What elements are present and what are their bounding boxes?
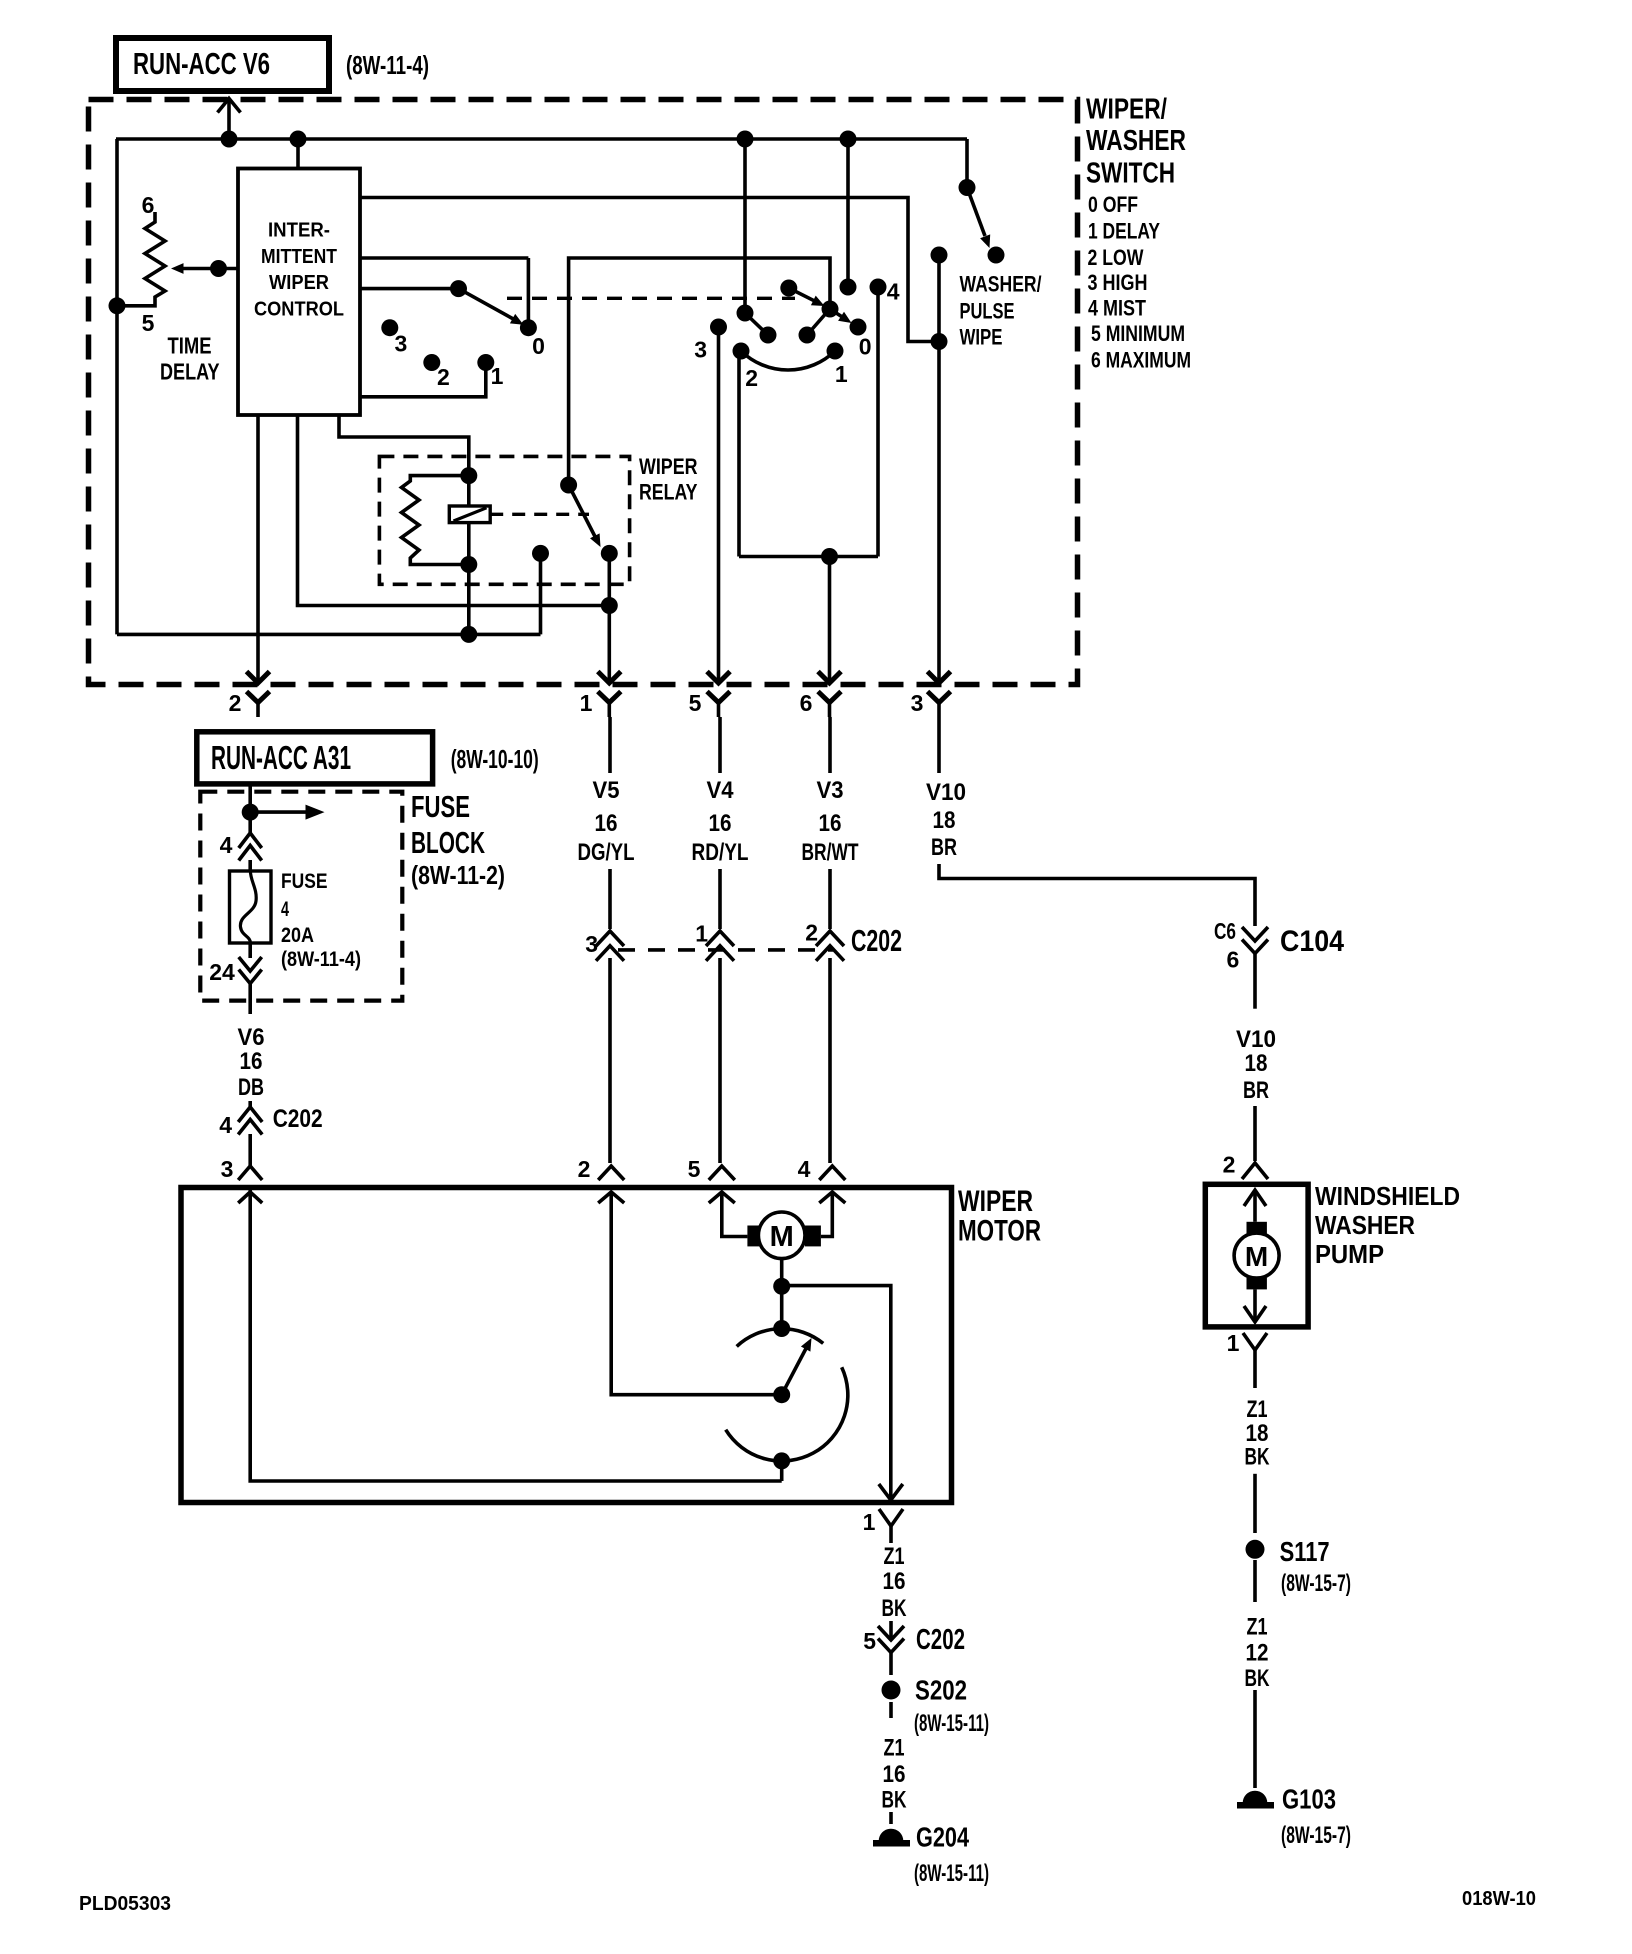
- connector C202 pin 5: [863, 1624, 965, 1656]
- svg-text:2: 2: [229, 690, 242, 716]
- svg-text:PULSE: PULSE: [960, 299, 1015, 324]
- svg-text:2: 2: [578, 1156, 591, 1182]
- wire bus to rotary contact left: [737, 131, 754, 314]
- svg-text:6: 6: [1227, 947, 1240, 973]
- svg-text:16: 16: [709, 810, 732, 837]
- windshield washer pump box: [1205, 1184, 1308, 1327]
- svg-text:BK: BK: [1245, 1444, 1270, 1471]
- svg-text:2 LOW: 2 LOW: [1088, 245, 1144, 270]
- motor pin 1 arrow inside: [879, 1484, 903, 1500]
- contact washer pulse: [988, 247, 1005, 264]
- fuse block dashed box: [200, 792, 402, 1001]
- svg-text:5 MINIMUM: 5 MINIMUM: [1091, 321, 1185, 346]
- svg-text:BR: BR: [1243, 1077, 1269, 1104]
- svg-text:2: 2: [437, 364, 450, 390]
- label TIME DELAY: [160, 333, 220, 385]
- svg-text:RD/YL: RD/YL: [692, 839, 749, 866]
- contact 0 rotary: [850, 319, 872, 360]
- connector pin 2: [229, 672, 270, 718]
- svg-text:1: 1: [835, 361, 848, 387]
- wire S202 stub: [889, 1702, 893, 1718]
- wire V3 to C202: [828, 869, 832, 929]
- svg-text:S117: S117: [1280, 1536, 1330, 1567]
- svg-text:V5: V5: [593, 777, 620, 804]
- connector pin 3: [911, 672, 951, 718]
- svg-text:C202: C202: [851, 923, 902, 958]
- connector C104: [1214, 918, 1344, 973]
- contact washer feed: [959, 179, 976, 196]
- wire control to relay coil: [339, 415, 469, 476]
- pump connector 1: [1227, 1330, 1267, 1362]
- node coil top: [460, 467, 477, 484]
- svg-text:3 HIGH: 3 HIGH: [1088, 270, 1148, 295]
- contact 3 rotary: [694, 319, 727, 363]
- contact 3 delay switch: [381, 319, 407, 356]
- wire G204 stub: [889, 1812, 893, 1824]
- wire C104 to pump: [1253, 954, 1257, 1009]
- svg-text:4: 4: [887, 279, 900, 305]
- svg-text:WIPER: WIPER: [639, 454, 698, 479]
- wire pump to label: [1253, 1362, 1257, 1388]
- svg-text:WIPER: WIPER: [269, 271, 329, 294]
- wire C202-4 to pin 3: [248, 1134, 252, 1166]
- svg-text:(8W-15-7): (8W-15-7): [1281, 1570, 1351, 1597]
- junction block label RUN-ACC V6: [116, 38, 329, 91]
- wiper/washer switch dashed enclosure: [89, 100, 1078, 685]
- wire bus to rotary contact right: [840, 131, 857, 288]
- wire V4 upper: [718, 717, 722, 773]
- svg-text:1: 1: [1227, 1330, 1240, 1356]
- contact 4 rotary: [870, 279, 900, 305]
- wiper motor box: [181, 1188, 952, 1503]
- wire contact 2 down: [737, 351, 741, 557]
- svg-text:1: 1: [863, 1509, 876, 1535]
- svg-text:WASHER: WASHER: [1315, 1210, 1415, 1240]
- svg-text:SWITCH: SWITCH: [1086, 158, 1175, 190]
- svg-text:WASHER/: WASHER/: [960, 272, 1042, 297]
- svg-text:(8W-11-2): (8W-11-2): [411, 860, 505, 890]
- wire motor output to pin 1: [782, 1286, 891, 1500]
- svg-text:RELAY: RELAY: [639, 480, 698, 505]
- svg-text:(8W-11-4): (8W-11-4): [281, 947, 361, 971]
- svg-text:6: 6: [800, 690, 813, 716]
- wire bus corner to washer contact: [965, 139, 969, 184]
- svg-text:6: 6: [142, 192, 155, 218]
- fuse block feed arrow: [250, 805, 324, 820]
- svg-text:Z1: Z1: [884, 1543, 905, 1570]
- contact 2 delay switch: [423, 354, 449, 390]
- wire to G103: [1253, 1690, 1257, 1788]
- rotary arm lower: [830, 309, 852, 323]
- label WIPER RELAY: [639, 454, 698, 505]
- junction block label RUN-ACC A31: [197, 732, 433, 784]
- wire control to connector 2: [256, 415, 260, 683]
- node bus-arrow junction: [221, 131, 238, 148]
- svg-text:1: 1: [491, 363, 504, 389]
- svg-text:RUN-ACC V6: RUN-ACC V6: [133, 46, 270, 81]
- reference (8W-15-11) S202: [914, 1710, 989, 1737]
- connector C202 pin 4: [219, 1101, 322, 1138]
- wire to C202 pin 5: [889, 1621, 893, 1640]
- svg-text:INTER-: INTER-: [268, 219, 330, 242]
- windshield washer pump connector 2: [1223, 1152, 1268, 1180]
- label V4 16 RD/YL: [692, 777, 749, 866]
- wire to S117: [1253, 1474, 1257, 1533]
- node coil bottom: [460, 556, 477, 573]
- node motor output junction: [773, 1278, 790, 1295]
- relay contact NO: [532, 545, 549, 635]
- svg-text:3: 3: [221, 1156, 234, 1182]
- wire V4 to C202: [718, 869, 722, 929]
- svg-text:PUMP: PUMP: [1315, 1239, 1384, 1269]
- label FUSE BLOCK (8W-11-2): [411, 789, 505, 890]
- wire C202-5 to S202: [889, 1653, 893, 1676]
- svg-text:(8W-10-10): (8W-10-10): [451, 744, 539, 774]
- label V10 18 BR lower: [1236, 1026, 1276, 1104]
- wire contact 3 to connector 5: [717, 327, 721, 683]
- svg-text:(8W-11-4): (8W-11-4): [346, 50, 429, 80]
- svg-text:18: 18: [933, 807, 956, 834]
- wire bus to intermittent wiper control: [296, 139, 300, 169]
- washer switch arm: [967, 188, 990, 249]
- svg-text:V10: V10: [1236, 1026, 1276, 1053]
- wire ground return bottom: [117, 633, 541, 637]
- motor M armature: [747, 1212, 821, 1259]
- label FUSE 4 20A (8W-11-4): [281, 869, 361, 971]
- svg-text:6 MAXIMUM: 6 MAXIMUM: [1091, 348, 1191, 373]
- svg-text:Z1: Z1: [1247, 1614, 1268, 1641]
- connector C202 pin 3: [585, 931, 624, 961]
- park switch ring lower: [726, 1367, 848, 1461]
- svg-text:5: 5: [689, 690, 702, 716]
- svg-text:1 DELAY: 1 DELAY: [1088, 219, 1160, 244]
- node crossover junction: [821, 548, 838, 565]
- wire V5 to C202: [608, 869, 612, 929]
- wire washer junction to connector 3: [937, 342, 941, 684]
- connector C202 pin 1: [695, 921, 734, 961]
- svg-text:Z1: Z1: [1247, 1396, 1268, 1423]
- svg-text:C202: C202: [273, 1105, 323, 1133]
- mechanical linkage dashed line: [507, 297, 795, 300]
- svg-text:V3: V3: [817, 777, 844, 804]
- svg-text:BR/WT: BR/WT: [802, 839, 859, 866]
- wire contact 4 down: [876, 287, 880, 557]
- contact rotary mid: [799, 311, 829, 344]
- wire contact 1 return to control: [360, 363, 486, 397]
- svg-text:3: 3: [694, 337, 707, 363]
- svg-text:RUN-ACC A31: RUN-ACC A31: [211, 739, 351, 776]
- label WIPER MOTOR: [958, 1185, 1041, 1248]
- svg-text:C6: C6: [1214, 918, 1236, 944]
- wire motor to park switch: [780, 1259, 784, 1329]
- svg-text:WIPE: WIPE: [960, 325, 1003, 350]
- label Z1 16 BK lower: [882, 1735, 907, 1814]
- label Z1 12 BK: [1245, 1614, 1270, 1693]
- rotary pivot: [780, 280, 797, 297]
- svg-text:3: 3: [911, 690, 924, 716]
- relay coil wire: [467, 476, 471, 635]
- footer code 018W-10: [1462, 1888, 1536, 1910]
- svg-text:BK: BK: [1245, 1665, 1270, 1692]
- label pin 5: [142, 310, 155, 336]
- contact washer output upper: [931, 247, 948, 264]
- svg-text:0 OFF: 0 OFF: [1088, 192, 1138, 217]
- reference (8W-15-7) S117: [1281, 1570, 1351, 1597]
- node coil-return junction: [460, 626, 477, 643]
- resistor time delay: [117, 212, 165, 306]
- svg-text:2: 2: [805, 920, 818, 946]
- wire park bottom to return: [780, 1461, 784, 1481]
- ground G103: [1237, 1784, 1336, 1815]
- svg-text:PLD05303: PLD05303: [79, 1893, 171, 1915]
- node rail-resistor junction: [109, 297, 126, 314]
- svg-text:24: 24: [209, 959, 235, 985]
- svg-text:5: 5: [142, 310, 155, 336]
- contact 1 delay switch: [477, 354, 503, 389]
- svg-text:WASHER: WASHER: [1086, 125, 1186, 157]
- svg-text:0: 0: [859, 334, 872, 360]
- park switch ring upper: [737, 1329, 824, 1347]
- svg-text:4: 4: [281, 897, 289, 921]
- connector pin 6: [800, 672, 841, 718]
- relay switch common: [560, 477, 577, 494]
- svg-text:CONTROL: CONTROL: [254, 298, 344, 321]
- svg-text:2: 2: [1223, 1152, 1236, 1178]
- svg-text:V4: V4: [707, 777, 735, 804]
- svg-text:BK: BK: [882, 1595, 907, 1622]
- svg-text:DELAY: DELAY: [160, 359, 220, 385]
- svg-text:BK: BK: [882, 1787, 907, 1814]
- park switch pivot: [773, 1386, 790, 1403]
- label V3 16 BR/WT: [802, 777, 859, 866]
- contact rotary bus-end: [840, 279, 857, 296]
- wiper arrow of time delay pot: [171, 260, 238, 277]
- svg-text:WIPER/: WIPER/: [1086, 94, 1167, 126]
- relay coil element: [449, 506, 490, 523]
- intermittent wiper control box: [238, 169, 360, 416]
- svg-text:WIPER: WIPER: [958, 1185, 1033, 1218]
- svg-text:Z1: Z1: [884, 1735, 905, 1762]
- contact rotary feed: [822, 301, 839, 318]
- wire into washer pump: [1253, 1106, 1257, 1161]
- contact 1 rotary: [827, 343, 848, 388]
- rotary arm left: [745, 313, 777, 344]
- node washer junction: [931, 333, 948, 350]
- svg-text:16: 16: [883, 1568, 906, 1595]
- connector C202 pin 2: [805, 920, 844, 961]
- wiper relay dashed box: [379, 456, 629, 584]
- svg-text:(8W-15-11): (8W-15-11): [914, 1710, 989, 1737]
- reference (8W-15-7) G103: [1281, 1822, 1351, 1849]
- park switch top contact: [773, 1320, 790, 1337]
- wire S117 stub: [1253, 1560, 1257, 1602]
- switch title WIPER/WASHER SWITCH: [1086, 94, 1186, 190]
- wire V4 lower: [718, 958, 722, 1163]
- svg-text:16: 16: [240, 1048, 263, 1075]
- svg-text:C104: C104: [1280, 925, 1344, 958]
- svg-text:V6: V6: [238, 1024, 265, 1051]
- label V10 18 BR: [926, 779, 966, 861]
- label V5 16 DG/YL: [578, 777, 635, 866]
- label WASHER/PULSE WIPE: [960, 272, 1042, 350]
- connector pin 1: [580, 672, 621, 718]
- svg-text:S202: S202: [915, 1675, 967, 1706]
- motor pin 4 connector: [798, 1156, 846, 1203]
- relay switch arm: [569, 485, 601, 547]
- node relay output junction: [601, 597, 618, 614]
- svg-text:4: 4: [219, 1112, 232, 1138]
- wire V10 upper: [937, 717, 941, 773]
- fuse 4 20A: [230, 871, 272, 943]
- svg-text:3: 3: [395, 331, 408, 357]
- svg-text:C202: C202: [916, 1624, 965, 1656]
- contact 0 delay switch: [520, 319, 545, 359]
- wire top bus: [116, 137, 967, 141]
- svg-text:WINDSHIELD: WINDSHIELD: [1315, 1181, 1460, 1211]
- svg-text:18: 18: [1245, 1050, 1268, 1077]
- wire pin 2 inside: [611, 1192, 782, 1395]
- svg-text:V10: V10: [926, 779, 966, 806]
- svg-text:BLOCK: BLOCK: [411, 825, 485, 860]
- svg-text:FUSE: FUSE: [411, 789, 470, 824]
- wire control to washer circuit: [360, 198, 939, 342]
- svg-text:BR: BR: [931, 834, 957, 861]
- wire A31 to fuse: [248, 784, 252, 833]
- splice S202: [882, 1675, 968, 1706]
- wire washer contact down: [937, 255, 941, 342]
- footer code PLD05303: [79, 1893, 171, 1915]
- svg-text:0: 0: [532, 333, 545, 359]
- svg-text:018W-10: 018W-10: [1462, 1888, 1536, 1910]
- svg-text:16: 16: [883, 1761, 906, 1788]
- svg-text:DB: DB: [238, 1074, 264, 1101]
- connector fuse pin 24: [209, 943, 261, 985]
- contact 2 rotary: [733, 343, 758, 392]
- node fuse feed junction: [242, 804, 259, 821]
- svg-text:(8W-15-7): (8W-15-7): [1281, 1822, 1351, 1849]
- switch arm delay: [450, 280, 524, 325]
- wire control to switch pivot: [360, 287, 459, 291]
- connector C202 dashed line: [618, 948, 833, 952]
- wire low-speed crossover: [739, 555, 878, 559]
- svg-text:5: 5: [863, 1628, 876, 1654]
- wire V5 upper: [608, 717, 612, 773]
- switch position legend: [1088, 192, 1192, 373]
- node bus-control junction: [290, 131, 307, 148]
- label WINDSHIELD WASHER PUMP: [1315, 1181, 1460, 1269]
- wire pin 3 inside: [250, 1188, 782, 1481]
- svg-text:16: 16: [819, 810, 842, 837]
- svg-text:M: M: [770, 1221, 794, 1253]
- label Z1 16 BK: [882, 1543, 907, 1622]
- reference (8W-11-4): [346, 50, 429, 80]
- connector pin 5: [689, 672, 730, 718]
- rotary arm upper: [789, 288, 825, 306]
- wire junction to connector 6: [828, 557, 832, 684]
- svg-text:2: 2: [745, 365, 758, 391]
- connector fuse pin 4: [220, 832, 262, 861]
- label pin 6: [142, 192, 155, 218]
- wire fuse out: [248, 984, 252, 1015]
- park switch bottom contact: [773, 1452, 790, 1469]
- wire pin 5 inside: [722, 1192, 748, 1237]
- label V6 16 DB: [238, 1024, 265, 1101]
- wire V5 lower: [608, 958, 612, 1163]
- svg-text:4: 4: [220, 832, 233, 858]
- splice S117: [1246, 1536, 1330, 1567]
- motor pin 3 arrow inside: [238, 1192, 262, 1203]
- label C202: [851, 923, 902, 958]
- svg-text:G204: G204: [916, 1822, 969, 1853]
- svg-text:1: 1: [580, 690, 593, 716]
- wire control to contact 0: [360, 258, 528, 328]
- svg-text:20A: 20A: [281, 923, 314, 947]
- svg-text:FUSE: FUSE: [281, 869, 328, 893]
- relay coil to contact dashed link: [490, 513, 589, 516]
- wire left rail: [115, 139, 119, 634]
- svg-text:MITTENT: MITTENT: [261, 245, 337, 268]
- svg-text:12: 12: [1246, 1640, 1269, 1667]
- wire pin 4 inside: [821, 1192, 832, 1237]
- svg-text:4: 4: [798, 1156, 811, 1182]
- reference (8W-15-11) G204: [914, 1860, 989, 1887]
- svg-text:DG/YL: DG/YL: [578, 839, 635, 866]
- label INTERMITTENT WIPER CONTROL: [254, 219, 344, 321]
- reference (8W-10-10): [451, 744, 539, 774]
- wire rotary feed to relay: [569, 258, 830, 485]
- svg-text:MOTOR: MOTOR: [958, 1215, 1041, 1248]
- motor pin 5 connector: [688, 1156, 735, 1203]
- relay contact output: [601, 545, 618, 562]
- svg-text:4 MIST: 4 MIST: [1088, 296, 1146, 321]
- park switch arm: [782, 1338, 812, 1395]
- wire V10 to C104: [939, 864, 1255, 926]
- svg-text:5: 5: [688, 1156, 701, 1182]
- svg-text:M: M: [1245, 1241, 1268, 1272]
- connector motor pin 1: [863, 1509, 903, 1543]
- svg-text:G103: G103: [1282, 1784, 1336, 1815]
- contact rotary top-left: [737, 305, 754, 322]
- connector motor pin 3: [221, 1156, 263, 1182]
- pump output arrow inside: [1244, 1289, 1266, 1322]
- relay shunt resistor: [402, 476, 469, 565]
- wire chevron to fuse: [248, 860, 252, 871]
- svg-text:3: 3: [585, 931, 598, 957]
- svg-text:16: 16: [595, 810, 618, 837]
- svg-text:1: 1: [695, 921, 708, 947]
- wire control pin to relay output: [298, 415, 610, 606]
- pump feed arrow inside: [1244, 1190, 1266, 1222]
- label Z1 18 BK pump: [1245, 1396, 1270, 1471]
- ground G204: [873, 1822, 969, 1853]
- feed arrow to RUN-ACC V6: [218, 99, 241, 140]
- wire relay output down: [607, 553, 611, 683]
- rotary sector arc: [741, 351, 835, 370]
- wire V3 lower: [828, 958, 832, 1163]
- svg-text:(8W-15-11): (8W-15-11): [914, 1860, 989, 1887]
- motor pin 2 connector: [578, 1156, 625, 1203]
- svg-text:TIME: TIME: [168, 333, 212, 359]
- pump M motor: [1234, 1222, 1279, 1290]
- wire V3 upper: [828, 717, 832, 773]
